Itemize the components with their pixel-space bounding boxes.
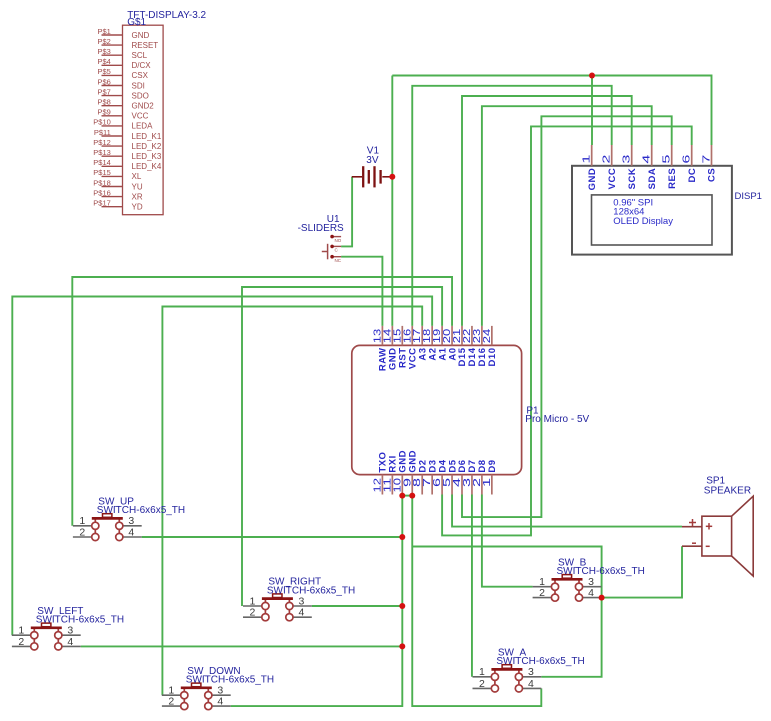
svg-text:2: 2 xyxy=(249,607,255,619)
svg-text:-SLIDERS: -SLIDERS xyxy=(298,223,344,234)
svg-text:CS: CS xyxy=(707,168,718,182)
svg-text:P$2: P$2 xyxy=(97,37,110,46)
svg-text:SDI: SDI xyxy=(132,81,145,90)
svg-text:2: 2 xyxy=(479,678,485,690)
svg-text:XL: XL xyxy=(132,172,142,181)
svg-text:GND: GND xyxy=(587,168,598,191)
svg-text:VCC: VCC xyxy=(607,168,618,190)
svg-text:7: 7 xyxy=(701,154,713,163)
svg-text:3: 3 xyxy=(67,625,73,637)
svg-text:4: 4 xyxy=(128,526,134,538)
svg-text:SDO: SDO xyxy=(132,91,149,100)
svg-text:4: 4 xyxy=(298,607,304,619)
svg-text:SWITCH-6x6x5_TH: SWITCH-6x6x5_TH xyxy=(557,566,645,577)
svg-text:2: 2 xyxy=(601,154,613,163)
svg-text:5: 5 xyxy=(661,154,673,163)
svg-text:2: 2 xyxy=(168,696,174,708)
svg-text:XR: XR xyxy=(132,192,143,201)
svg-text:P$6: P$6 xyxy=(97,77,110,86)
svg-text:P$16: P$16 xyxy=(93,188,111,197)
svg-text:24: 24 xyxy=(481,329,493,344)
svg-text:NC: NC xyxy=(335,258,342,263)
svg-text:LED_K4: LED_K4 xyxy=(132,162,162,171)
svg-text:NO: NO xyxy=(335,238,342,243)
svg-text:GND2: GND2 xyxy=(132,102,155,111)
svg-text:2: 2 xyxy=(18,636,24,648)
svg-text:P$15: P$15 xyxy=(93,168,111,177)
svg-text:P$5: P$5 xyxy=(97,67,110,76)
svg-text:P$17: P$17 xyxy=(93,199,111,208)
svg-text:1: 1 xyxy=(249,595,255,607)
svg-text:3V: 3V xyxy=(366,155,379,166)
svg-text:P$1: P$1 xyxy=(97,27,110,36)
svg-text:3: 3 xyxy=(621,154,633,163)
svg-text:2: 2 xyxy=(539,587,545,599)
svg-text:1: 1 xyxy=(581,154,593,163)
svg-text:SWITCH-6x6x5_TH: SWITCH-6x6x5_TH xyxy=(186,675,274,686)
svg-text:P$7: P$7 xyxy=(97,87,110,96)
svg-text:P$10: P$10 xyxy=(93,118,111,127)
svg-text:SCL: SCL xyxy=(132,51,148,60)
svg-text:3: 3 xyxy=(128,515,134,527)
svg-text:OLED Display: OLED Display xyxy=(613,216,673,227)
svg-text:1: 1 xyxy=(479,666,485,678)
svg-text:4: 4 xyxy=(641,154,653,163)
svg-text:1: 1 xyxy=(18,625,24,637)
svg-text:4: 4 xyxy=(217,696,223,708)
svg-text:SCK: SCK xyxy=(627,168,638,190)
svg-text:3: 3 xyxy=(528,666,534,678)
svg-text:SWITCH-6x6x5_TH: SWITCH-6x6x5_TH xyxy=(97,505,185,516)
svg-text:Pro Micro - 5V: Pro Micro - 5V xyxy=(525,414,589,425)
svg-text:4: 4 xyxy=(67,636,73,648)
svg-text:4: 4 xyxy=(588,587,594,599)
svg-text:SWITCH-6x6x5_TH: SWITCH-6x6x5_TH xyxy=(267,585,355,596)
svg-text:4: 4 xyxy=(528,678,534,690)
svg-text:P$4: P$4 xyxy=(97,57,110,66)
svg-text:1: 1 xyxy=(481,478,493,487)
svg-text:LED_K1: LED_K1 xyxy=(132,132,162,141)
svg-text:P$11: P$11 xyxy=(94,128,111,137)
svg-text:YU: YU xyxy=(132,182,143,191)
svg-text:3: 3 xyxy=(298,595,304,607)
svg-text:D/CX: D/CX xyxy=(132,61,152,70)
svg-text:P$3: P$3 xyxy=(97,47,110,56)
svg-text:G$1: G$1 xyxy=(127,17,146,28)
svg-text:P$13: P$13 xyxy=(93,148,111,157)
svg-text:P$9: P$9 xyxy=(97,108,110,117)
svg-text:SPEAKER: SPEAKER xyxy=(704,485,751,496)
svg-text:DISP1: DISP1 xyxy=(735,191,762,202)
svg-text:1: 1 xyxy=(79,515,85,527)
svg-text:P$8: P$8 xyxy=(97,98,110,107)
svg-text:LEDA: LEDA xyxy=(132,122,154,131)
svg-text:P$18: P$18 xyxy=(93,178,111,187)
svg-text:VCC: VCC xyxy=(132,112,149,121)
svg-text:SWITCH-6x6x5_TH: SWITCH-6x6x5_TH xyxy=(496,656,584,667)
svg-text:6: 6 xyxy=(681,154,693,163)
svg-text:2: 2 xyxy=(79,526,85,538)
svg-text:LED_K3: LED_K3 xyxy=(132,152,162,161)
svg-text:RES: RES xyxy=(667,168,678,189)
svg-text:D10: D10 xyxy=(487,348,498,367)
svg-text:P$12: P$12 xyxy=(93,138,111,147)
svg-text:SDA: SDA xyxy=(647,168,658,190)
svg-text:DC: DC xyxy=(687,168,698,183)
svg-text:GND: GND xyxy=(132,31,150,40)
svg-text:LED_K2: LED_K2 xyxy=(132,142,162,151)
svg-text:P$14: P$14 xyxy=(93,158,111,167)
svg-text:D9: D9 xyxy=(487,459,498,472)
svg-text:YD: YD xyxy=(132,203,143,212)
svg-text:CSX: CSX xyxy=(132,71,149,80)
svg-text:RESET: RESET xyxy=(132,41,159,50)
svg-text:SWITCH-6x6x5_TH: SWITCH-6x6x5_TH xyxy=(36,615,124,626)
